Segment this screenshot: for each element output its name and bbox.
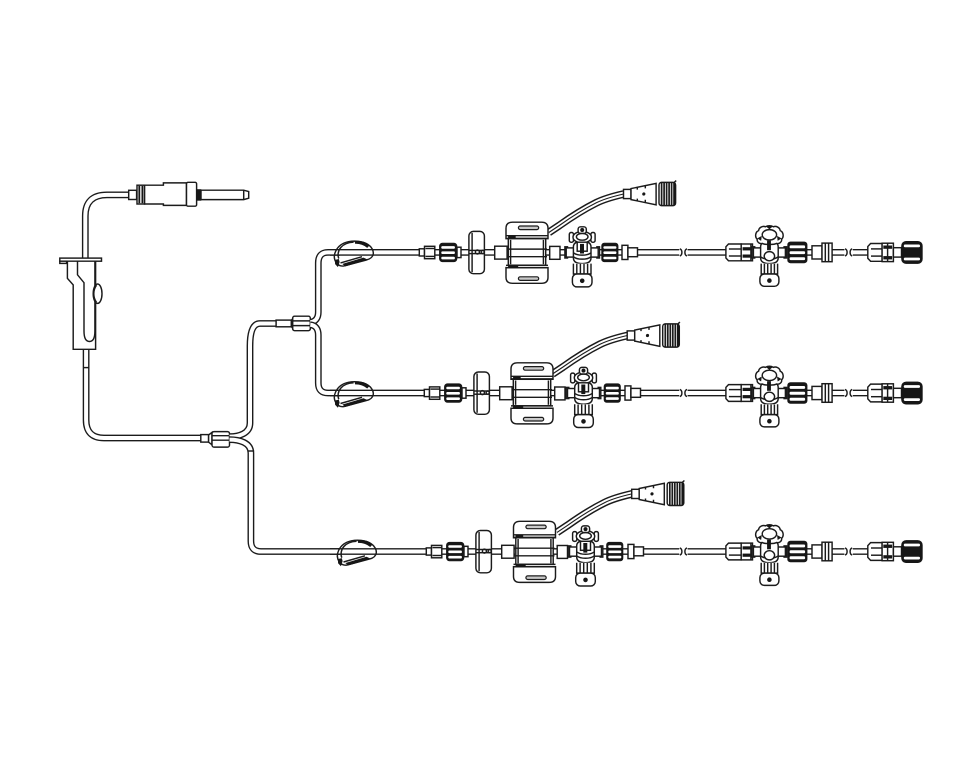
stopcock 2, branch 2 bbox=[752, 366, 787, 427]
female luer B, branch 1 bbox=[812, 243, 832, 262]
wire: branch 2 mid tube bbox=[551, 390, 627, 397]
tubing break, branch 1 bbox=[679, 248, 687, 257]
outlet luer, branch 3 bbox=[628, 544, 644, 558]
knurled collar 2, branch 3 bbox=[788, 541, 808, 562]
inline disc, branch 2 bbox=[474, 372, 490, 414]
inline disc, branch 1 bbox=[469, 231, 485, 273]
pinch clamp, branch 3 bbox=[337, 540, 376, 565]
tubing break 2, branch 2 bbox=[844, 388, 852, 397]
pinch clamp, branch 2 bbox=[334, 382, 373, 407]
pressure line with cap, branch 3 bbox=[557, 481, 684, 533]
pressure line with cap, branch 2 bbox=[553, 322, 680, 374]
wire: branch 1 distal tube bbox=[636, 249, 727, 256]
coupler right, branch 1 bbox=[550, 246, 560, 259]
wire: branch 1 tube after stopcock 2 bbox=[803, 249, 813, 256]
wire: branch 3 distal tube bbox=[642, 548, 727, 555]
wire: branch 2 tube to end cap bbox=[831, 390, 869, 397]
manifold plate, branch 2 bbox=[511, 363, 553, 424]
outlet luer, branch 1 bbox=[622, 245, 638, 259]
wire: middle Y up to branch 1 bbox=[310, 252, 340, 322]
wire: branch 3 proximal tube bbox=[330, 548, 515, 555]
female luer B, branch 2 bbox=[812, 384, 832, 403]
wire: joint tick on branch 3 drop bbox=[248, 450, 254, 452]
wire: tube from spike to roller clamp bbox=[85, 195, 133, 259]
pressure line with cap, branch 1 bbox=[549, 181, 676, 233]
stopcock 1, branch 2 bbox=[566, 367, 601, 427]
manifold plate, branch 1 bbox=[506, 222, 548, 283]
knurled collar 2, branch 1 bbox=[788, 242, 808, 263]
wire: branch 1 tube to end cap bbox=[831, 249, 869, 256]
female luer, branch 3 bbox=[726, 543, 753, 560]
end luer with cap, branch 1 bbox=[868, 241, 923, 263]
wire: branch 2 proximal tube bbox=[330, 390, 513, 397]
coupler right, branch 2 bbox=[555, 387, 565, 400]
Y connector (lower) bbox=[201, 432, 230, 448]
Y connector (middle) bbox=[276, 316, 310, 331]
wire: branch 1 proximal tube bbox=[330, 249, 508, 256]
end luer with cap, branch 2 bbox=[868, 382, 923, 404]
wire: branch 3 mid tube bbox=[553, 548, 630, 555]
stopcock 1, branch 3 bbox=[568, 526, 603, 586]
coupler, branch 1 bbox=[495, 246, 507, 259]
stopcock 1, branch 1 bbox=[565, 227, 600, 287]
wire: branch 2 tube after stopcock 2 bbox=[803, 390, 813, 397]
stopcock 2, branch 3 bbox=[752, 525, 787, 586]
wire: tube from roller clamp down and right to lower Y bbox=[86, 349, 201, 438]
roller clamp bbox=[60, 258, 102, 349]
knurled collar, branch 2 bbox=[604, 384, 621, 403]
female luer, branch 1 bbox=[726, 244, 753, 261]
tubing break, branch 3 bbox=[679, 547, 687, 556]
outlet luer, branch 2 bbox=[625, 386, 641, 400]
knurled collar, branch 1 bbox=[602, 243, 619, 262]
wire: lower Y to middle Y riser bbox=[230, 324, 278, 437]
coupler right, branch 3 bbox=[557, 546, 567, 559]
tubing break 2, branch 1 bbox=[844, 248, 852, 257]
wire: lower Y down to branch 3 bbox=[230, 440, 341, 552]
wire: branch 3 tube to end cap bbox=[831, 548, 869, 555]
stopcock 2, branch 1 bbox=[752, 226, 787, 287]
tubing break, branch 2 bbox=[679, 388, 687, 397]
male luer lock, branch 3 bbox=[426, 542, 468, 561]
male luer lock, branch 2 bbox=[424, 384, 466, 403]
manifold plate, branch 3 bbox=[514, 521, 556, 582]
wire: joint tick on vertical tube bbox=[83, 367, 89, 369]
wire: middle Y down to branch 2 bbox=[310, 325, 340, 393]
female luer B, branch 3 bbox=[812, 542, 832, 561]
wire: branch 2 distal tube bbox=[639, 390, 727, 397]
female luer, branch 2 bbox=[726, 385, 753, 402]
knurled collar, branch 3 bbox=[607, 542, 624, 561]
inline disc, branch 3 bbox=[476, 531, 492, 573]
end luer with cap, branch 3 bbox=[868, 540, 923, 562]
coupler, branch 2 bbox=[500, 387, 512, 400]
wire: branch 1 mid tube bbox=[546, 249, 624, 256]
male luer lock, branch 1 bbox=[419, 243, 461, 262]
knurled collar 2, branch 2 bbox=[788, 383, 808, 404]
tubing break 2, branch 3 bbox=[844, 547, 852, 556]
coupler, branch 3 bbox=[502, 545, 514, 558]
wire: branch 3 tube after stopcock 2 bbox=[803, 548, 813, 555]
spike drip chamber assembly bbox=[129, 182, 249, 206]
pinch clamp, branch 1 bbox=[334, 241, 373, 266]
